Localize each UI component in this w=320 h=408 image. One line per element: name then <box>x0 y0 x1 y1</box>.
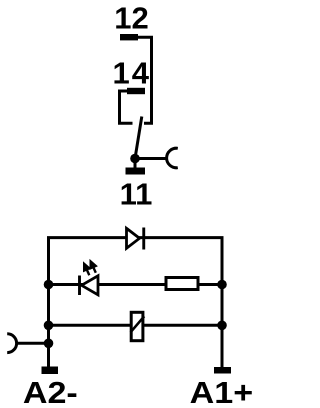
svg-text:14: 14 <box>113 56 151 91</box>
svg-text:12: 12 <box>114 1 148 36</box>
svg-text:A1+: A1+ <box>190 375 253 408</box>
svg-text:A2-: A2- <box>23 375 78 408</box>
svg-text:11: 11 <box>120 176 153 211</box>
